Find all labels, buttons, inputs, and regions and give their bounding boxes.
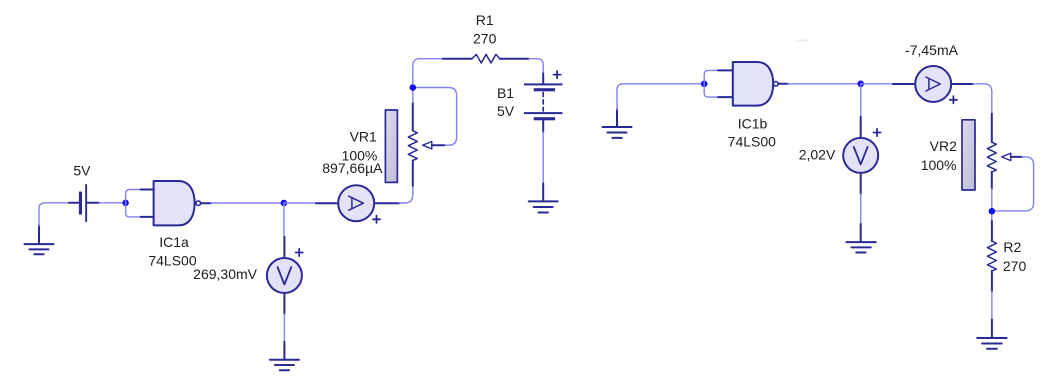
battery B1 bbox=[524, 71, 563, 132]
artifact dash bbox=[798, 40, 809, 42]
wire bbox=[788, 83, 861, 85]
svg-text:R1: R1 bbox=[476, 12, 494, 28]
node N3 bbox=[410, 84, 417, 91]
ammeter A2 bbox=[893, 66, 973, 103]
resistor R2 bbox=[987, 221, 996, 292]
wire bbox=[991, 292, 993, 320]
battery BT1 bbox=[69, 184, 99, 222]
ground GND1 bbox=[25, 225, 54, 254]
node N4 bbox=[701, 81, 708, 88]
svg-text:269,30mV: 269,30mV bbox=[193, 266, 257, 282]
wire bbox=[413, 59, 443, 103]
wire input loop bbox=[126, 190, 141, 217]
wire bbox=[283, 314, 285, 342]
wire wiper loop VR2 bbox=[992, 157, 1033, 211]
wire wiper loop VR1 bbox=[413, 88, 457, 146]
wire bbox=[283, 203, 285, 237]
node N6 bbox=[989, 208, 996, 215]
svg-text:2,02V: 2,02V bbox=[799, 147, 836, 163]
wire bbox=[861, 83, 893, 85]
node N1 bbox=[122, 200, 129, 207]
svg-text:5V: 5V bbox=[73, 162, 91, 178]
resistor R1 bbox=[443, 54, 529, 63]
wire bbox=[39, 203, 69, 226]
wire bbox=[991, 189, 993, 221]
svg-text:VR1: VR1 bbox=[350, 129, 377, 145]
wire bbox=[211, 202, 284, 204]
wire bbox=[99, 202, 126, 204]
voltmeter V2 bbox=[843, 117, 880, 194]
ground GND3 bbox=[270, 342, 299, 371]
ground GND4 bbox=[603, 109, 632, 138]
wire bbox=[617, 84, 704, 110]
NAND gate IC1a bbox=[141, 181, 211, 225]
svg-text:100%: 100% bbox=[342, 147, 378, 163]
svg-text:74LS00: 74LS00 bbox=[728, 133, 776, 149]
svg-text:270: 270 bbox=[473, 31, 497, 47]
wire bbox=[542, 132, 544, 183]
svg-text:-7,45mA: -7,45mA bbox=[905, 42, 959, 58]
svg-text:B1: B1 bbox=[497, 85, 514, 101]
svg-text:5V: 5V bbox=[497, 103, 515, 119]
potentiometer VR2 bbox=[962, 114, 1022, 190]
voltmeter V1 bbox=[267, 237, 303, 314]
wire input loop IC1b bbox=[704, 70, 718, 97]
NAND gate IC1b bbox=[718, 62, 788, 106]
wire bbox=[860, 194, 862, 224]
node N5 bbox=[857, 81, 864, 88]
wire bbox=[529, 59, 543, 74]
potentiometer VR1 bbox=[385, 103, 445, 186]
wire bbox=[860, 84, 862, 117]
wire bbox=[284, 202, 316, 204]
ground GND2 bbox=[529, 183, 558, 212]
wire bbox=[399, 186, 413, 203]
svg-text:IC1a: IC1a bbox=[159, 234, 189, 250]
svg-text:IC1b: IC1b bbox=[738, 115, 768, 131]
svg-text:100%: 100% bbox=[921, 157, 957, 173]
svg-text:R2: R2 bbox=[1003, 239, 1021, 255]
ground GND6 bbox=[846, 224, 875, 253]
wire bbox=[973, 84, 992, 114]
ground GND5 bbox=[977, 320, 1006, 349]
node N2 bbox=[281, 200, 288, 207]
svg-text:VR2: VR2 bbox=[930, 138, 957, 154]
ammeter A1 bbox=[316, 185, 400, 223]
svg-text:74LS00: 74LS00 bbox=[148, 252, 196, 268]
svg-text:270: 270 bbox=[1003, 258, 1027, 274]
